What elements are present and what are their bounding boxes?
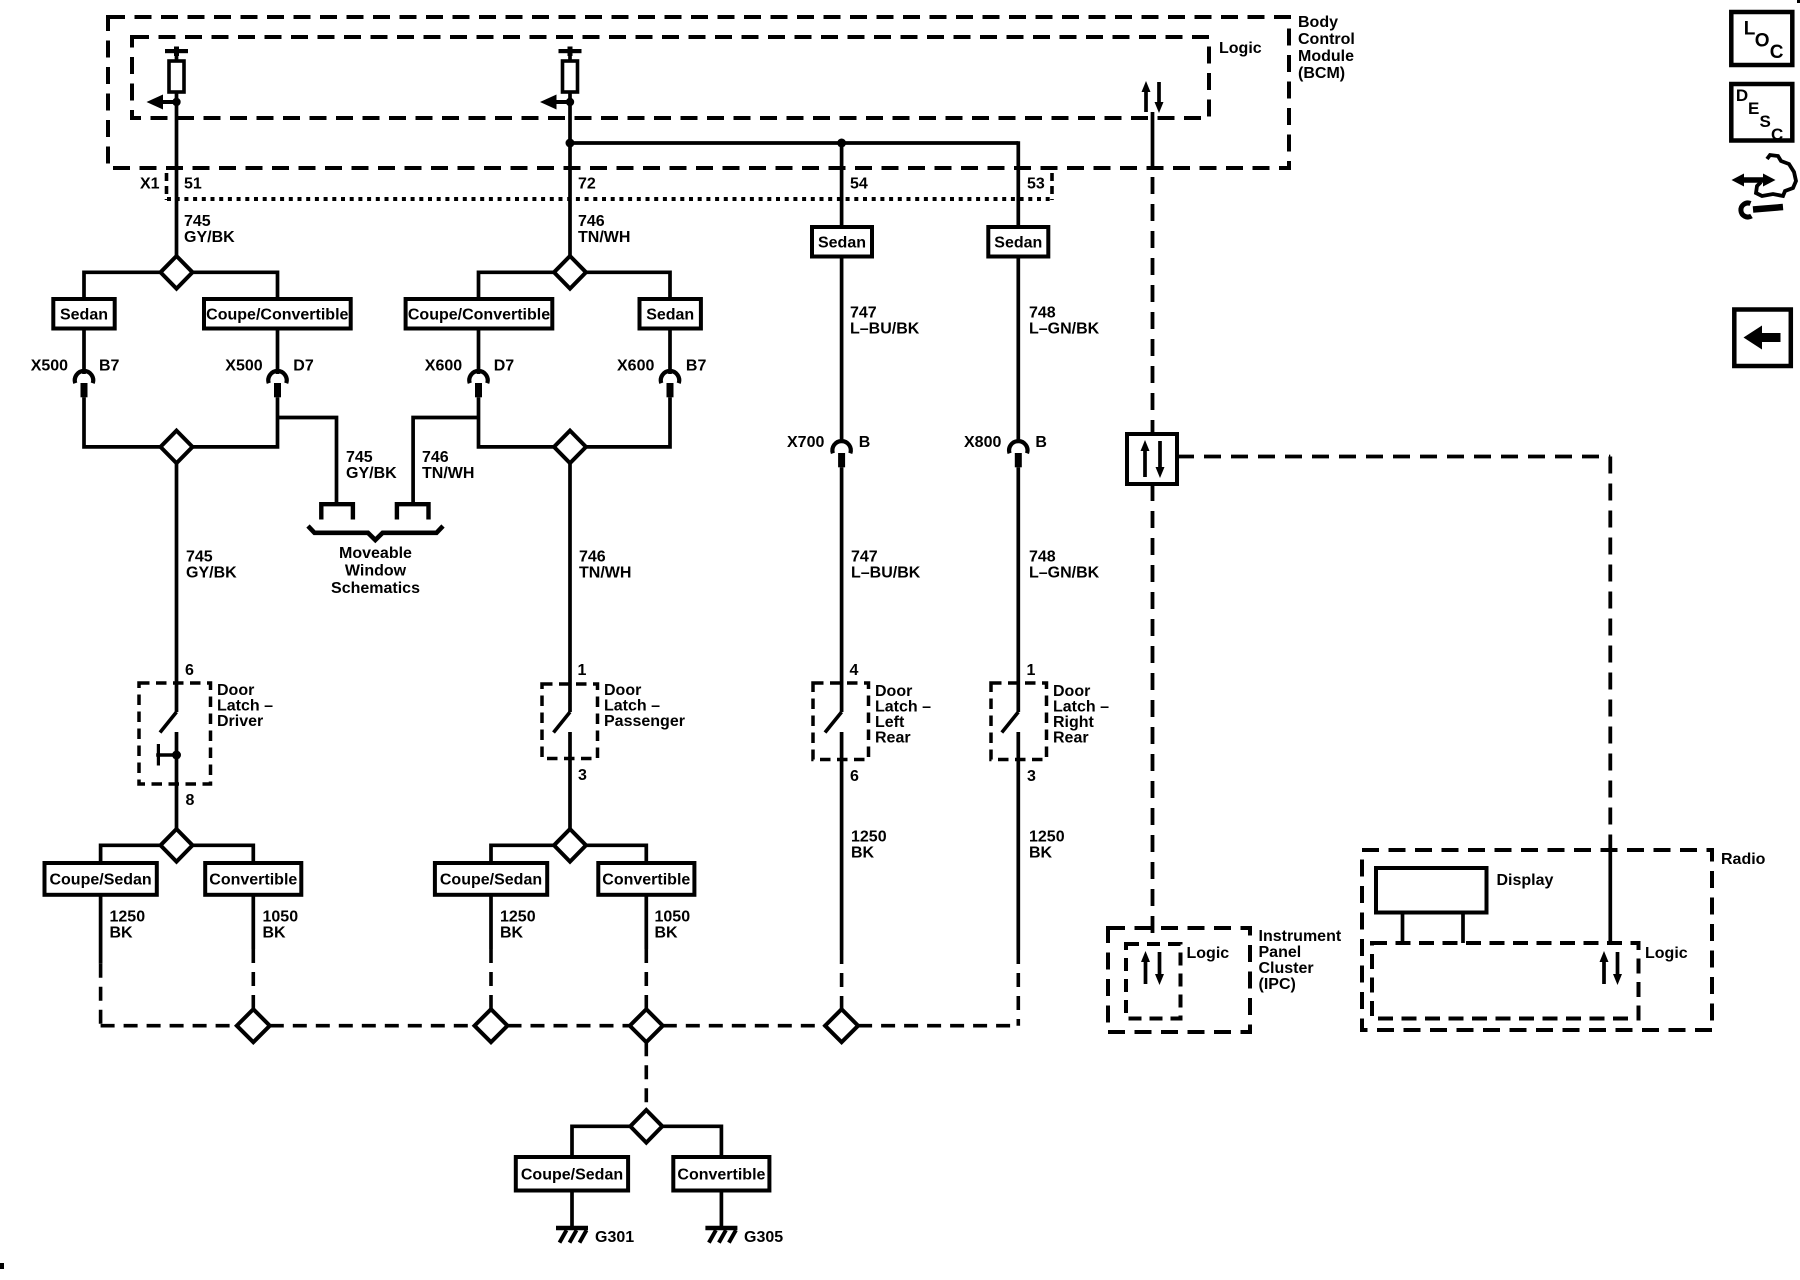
tap wire to moveable window socket (745) [278, 418, 337, 503]
svg-text:Latch –: Latch – [1053, 699, 1109, 716]
svg-text:BK: BK [500, 925, 524, 942]
svg-text:745: 745 [184, 213, 211, 230]
svg-text:Coupe/Convertible: Coupe/Convertible [408, 307, 550, 324]
junction dot at pin 54 wire [837, 139, 846, 148]
wire Coupe/Convertible box to X500 D7 [276, 329, 280, 375]
Door Latch Passenger dashed box [542, 684, 598, 759]
page corner mark (top right) [1797, 0, 1800, 3]
svg-text:Logic: Logic [1187, 945, 1230, 962]
svg-text:748: 748 [1029, 305, 1056, 322]
svg-text:X600: X600 [617, 358, 654, 375]
voltage feed symbol (passenger circuit) [559, 47, 582, 57]
horizontal wire to pins 54 and 53 [570, 141, 1018, 145]
svg-text:B7: B7 [686, 358, 707, 375]
wire 746 merge diamond to passenger door latch [568, 463, 572, 712]
wire below Convertible passenger (solid then dashed) [644, 895, 648, 1009]
svg-text:Coupe/Sedan: Coupe/Sedan [440, 872, 542, 889]
pin 53 separator tick [1050, 173, 1054, 200]
svg-text:Body: Body [1298, 14, 1338, 31]
Door Latch Left Rear dashed box [813, 683, 869, 760]
door latch driver switch arm [160, 712, 177, 733]
socket to moveable window schematics (745) [321, 504, 353, 519]
wire label 1050 BK (passenger convertible) [655, 909, 691, 942]
back arrow icon box [1734, 310, 1791, 367]
svg-text:Radio: Radio [1721, 851, 1766, 868]
Sedan box (driver sedan) [53, 299, 114, 329]
svg-text:4: 4 [850, 662, 859, 679]
Coupe/Convertible box (driver) [204, 299, 351, 329]
bus splice diamond (passenger convertible) [630, 1009, 663, 1042]
DESC icon box [1731, 84, 1792, 144]
signal arrow (left) passenger input [540, 95, 574, 110]
svg-text:747: 747 [851, 549, 878, 566]
serial data dashed line comm box to IPC [1151, 484, 1155, 944]
svg-text:1050: 1050 [263, 909, 299, 926]
svg-text:Door: Door [217, 682, 254, 699]
svg-text:BK: BK [263, 925, 287, 942]
door latch driver lower contact wire [175, 732, 179, 829]
svg-text:1250: 1250 [500, 909, 536, 926]
wire Sedan box to X600 B7 [668, 329, 672, 375]
svg-text:51: 51 [184, 176, 202, 193]
svg-text:Rear: Rear [875, 730, 911, 747]
svg-text:X1: X1 [140, 176, 160, 193]
svg-text:Convertible: Convertible [209, 872, 297, 889]
svg-text:Sedan: Sedan [994, 235, 1042, 252]
svg-text:Door: Door [1053, 683, 1090, 700]
svg-text:746: 746 [422, 449, 449, 466]
svg-text:Coupe/Sedan: Coupe/Sedan [49, 872, 151, 889]
connector X600 D7 arc and pin [469, 371, 487, 397]
resistor R (BCM passenger input pull-up) [563, 53, 578, 92]
wire label 748 L-GN/BK (mid) [1029, 549, 1100, 582]
svg-text:TN/WH: TN/WH [578, 229, 630, 246]
svg-text:L–BU/BK: L–BU/BK [850, 321, 920, 338]
svg-text:Sedan: Sedan [818, 235, 866, 252]
Door Latch Driver dashed box [139, 683, 211, 784]
svg-text:BK: BK [1029, 845, 1053, 862]
svg-text:Door: Door [604, 682, 641, 699]
svg-text:X500: X500 [225, 358, 262, 375]
svg-text:L–GN/BK: L–GN/BK [1029, 321, 1100, 338]
Display box [1376, 868, 1487, 913]
display leg wires [1403, 913, 1464, 944]
svg-text:746: 746 [578, 213, 605, 230]
svg-text:1250: 1250 [1029, 829, 1065, 846]
svg-text:Window: Window [345, 563, 407, 580]
Convertible box (G305) [673, 1157, 769, 1191]
wire label 1250 BK (driver coupe/sedan) [110, 909, 146, 942]
svg-text:X800: X800 [964, 434, 1001, 451]
svg-text:Driver: Driver [217, 713, 263, 730]
wire diamond to Convertible (driver) [193, 845, 254, 863]
svg-text:3: 3 [578, 767, 587, 784]
svg-text:D7: D7 [293, 358, 314, 375]
svg-text:X500: X500 [31, 358, 68, 375]
svg-text:G305: G305 [744, 1229, 783, 1246]
connector X1 separator tick [165, 173, 169, 200]
wire from Sedan box to X800 [1016, 257, 1020, 444]
svg-text:L–BU/BK: L–BU/BK [851, 565, 921, 582]
wire to ground G301 [570, 1191, 574, 1228]
Coupe/Sedan box (passenger ground) [435, 863, 547, 895]
svg-text:L–GN/BK: L–GN/BK [1029, 565, 1100, 582]
wire X700 to door latch left rear [840, 467, 844, 712]
svg-text:Rear: Rear [1053, 730, 1089, 747]
svg-text:Sedan: Sedan [60, 307, 108, 324]
wire label 1250 BK (passenger coupe/sedan) [500, 909, 536, 942]
svg-text:Right: Right [1053, 714, 1095, 731]
wire diamond to Convertible G305 [662, 1126, 721, 1157]
svg-text:BK: BK [110, 925, 134, 942]
wire below Coupe/Sedan driver (solid then dashed) [99, 895, 103, 1026]
door latch passenger lower contact wire [568, 732, 572, 829]
serial data dashed line BCM to comm box [1151, 177, 1155, 434]
Convertible box (passenger ground) [598, 863, 694, 895]
serial data wire inside BCM [1151, 112, 1155, 170]
svg-text:Display: Display [1497, 872, 1554, 889]
resistor R (BCM driver input pull-up) [169, 53, 184, 92]
svg-text:Instrument: Instrument [1259, 928, 1342, 945]
serial data arrows in comm box [1141, 440, 1165, 478]
wire Coupe/Convertible box to X600 D7 [477, 329, 481, 375]
serial data arrows in IPC logic [1141, 951, 1164, 985]
wire label 747 L-BU/BK (upper) [850, 305, 920, 338]
wire diamond to Sedan (X600 B7) branch [586, 272, 670, 299]
svg-text:B: B [859, 434, 871, 451]
splice diamond (passenger ground split) [554, 829, 586, 862]
svg-text:72: 72 [578, 176, 596, 193]
Coupe/Sedan box (G301) [516, 1157, 628, 1191]
svg-text:1250: 1250 [851, 829, 887, 846]
svg-text:745: 745 [346, 449, 373, 466]
svg-text:747: 747 [850, 305, 877, 322]
serial data arrows in BCM logic [1142, 81, 1164, 113]
svg-text:1: 1 [578, 662, 587, 679]
svg-text:Cluster: Cluster [1259, 960, 1314, 977]
connector face dotted line [167, 197, 1052, 201]
svg-text:S: S [1760, 112, 1771, 131]
Radio Logic inner dashed box [1372, 943, 1639, 1019]
connector X800 arc and pin [1009, 441, 1027, 467]
wire to ground G305 [720, 1191, 724, 1228]
ground symbol G301 [556, 1228, 588, 1243]
svg-text:Door: Door [875, 683, 912, 700]
Coupe/Sedan box (driver ground) [45, 863, 157, 895]
socket to moveable window schematics (746) [397, 504, 429, 519]
door latch left rear lower contact wire [840, 732, 844, 950]
door latch right rear lower contact wire [1016, 732, 1020, 950]
svg-text:1050: 1050 [655, 909, 691, 926]
svg-text:Logic: Logic [1219, 40, 1262, 57]
svg-text:D7: D7 [494, 358, 515, 375]
connector X700 arc and pin [832, 441, 850, 467]
svg-text:Convertible: Convertible [602, 872, 690, 889]
svg-text:X600: X600 [425, 358, 462, 375]
svg-text:BK: BK [655, 925, 679, 942]
wire X800 to door latch right rear [1016, 467, 1020, 712]
wire diamond to Coupe/Sedan G301 [572, 1126, 630, 1157]
svg-text:1: 1 [1027, 662, 1036, 679]
svg-text:Sedan: Sedan [646, 307, 694, 324]
Moveable Window Schematics label [331, 545, 420, 597]
wire diamond to Coupe/Convertible (X600 D7) branch [479, 272, 555, 299]
svg-text:G301: G301 [595, 1229, 634, 1246]
Door Latch Passenger label [604, 682, 685, 730]
wire X600 B7 to merge diamond 2 [586, 397, 670, 447]
serial data dashed branch to radio [1177, 457, 1610, 852]
connector X600 B7 arc and pin [661, 371, 679, 397]
svg-text:53: 53 [1027, 176, 1045, 193]
BCM label "Body Control Module (BCM)" [1298, 14, 1355, 82]
svg-text:748: 748 [1029, 549, 1056, 566]
wire Sedan box to X500 B7 [82, 329, 86, 375]
wire down to Sedan box (pin 53) [1016, 141, 1020, 227]
svg-text:Control: Control [1298, 31, 1355, 48]
IPC outer dashed box [1108, 928, 1250, 1032]
socket wire label 746 TN/WH [422, 449, 474, 482]
wire diamond to Sedan (B7) branch [84, 272, 161, 299]
wire below Convertible driver (solid then dashed) [251, 895, 255, 1009]
wire diamond to Coupe/Convertible (D7) branch [193, 272, 278, 299]
svg-text:Latch –: Latch – [875, 699, 931, 716]
BCM outer dashed box [108, 17, 1289, 168]
svg-text:Passenger: Passenger [604, 713, 685, 730]
connector X500 D7 arc and pin [268, 371, 286, 397]
svg-text:D: D [1736, 86, 1748, 105]
Sedan box (left rear circuit) [812, 227, 872, 257]
wire B7 to merge diamond [84, 397, 161, 447]
IPC Logic inner dashed box [1126, 944, 1181, 1019]
Door Latch Right Rear label [1053, 683, 1109, 747]
wire label 1250 BK (right rear) [1029, 829, 1065, 862]
wire down to Sedan box (pin 54) [840, 143, 844, 227]
wire X600 D7 to merge diamond 2 [479, 397, 555, 447]
bus splice diamond (driver convertible) [237, 1009, 270, 1042]
ground bus dashed line [101, 1024, 1019, 1028]
svg-text:Panel: Panel [1259, 944, 1302, 961]
splice diamond (ground merge) [630, 1110, 662, 1143]
svg-text:E: E [1748, 99, 1759, 118]
splice diamond (745 split) [161, 256, 193, 289]
svg-text:C: C [1771, 125, 1783, 144]
svg-text:GY/BK: GY/BK [186, 565, 237, 582]
door latch left rear switch arm [825, 712, 842, 733]
svg-text:TN/WH: TN/WH [579, 565, 631, 582]
svg-text:Convertible: Convertible [677, 1167, 765, 1184]
wire from resistor to arrow junction [175, 92, 179, 256]
bus splice diamond (passenger coupe/sedan) [475, 1009, 508, 1042]
Convertible box (driver ground) [205, 863, 301, 895]
svg-text:TN/WH: TN/WH [422, 465, 474, 482]
svg-text:6: 6 [850, 768, 859, 785]
splice diamond (745 merge) [161, 431, 193, 464]
tap wire to moveable window socket (746) [413, 418, 478, 503]
door latch right rear switch arm [1002, 712, 1019, 733]
serial data arrows in radio logic [1600, 951, 1623, 985]
wire below Coupe/Sedan passenger (solid then dashed) [489, 895, 493, 1009]
door latch driver pawl contact [156, 744, 181, 766]
svg-text:X700: X700 [787, 434, 824, 451]
wire from Sedan box to X700 [840, 257, 844, 444]
diagnostic tool icon (arrows and wrench) [1732, 155, 1797, 217]
Sedan box (right rear circuit) [988, 227, 1048, 257]
Door Latch Left Rear label [875, 683, 931, 747]
svg-text:Logic: Logic [1645, 945, 1688, 962]
wire label 745 GY/BK (mid) [186, 549, 237, 582]
Radio outer dashed box [1362, 850, 1712, 1030]
page corner mark [0, 1263, 4, 1269]
voltage feed symbol (driver circuit) [165, 47, 188, 57]
svg-text:Coupe/Sedan: Coupe/Sedan [521, 1167, 623, 1184]
svg-text:BK: BK [851, 845, 875, 862]
wire diamond to Coupe/Sedan (passenger) [491, 845, 554, 863]
svg-text:746: 746 [579, 549, 606, 566]
wire from resistor 2 down to pin 72 [568, 92, 572, 256]
signal arrow (left) driver input [147, 95, 181, 110]
svg-text:1250: 1250 [110, 909, 146, 926]
svg-text:GY/BK: GY/BK [346, 465, 397, 482]
wire label 1250 BK (left rear) [851, 829, 887, 862]
svg-text:8: 8 [186, 792, 195, 809]
svg-text:Moveable: Moveable [339, 545, 412, 562]
svg-text:745: 745 [186, 549, 213, 566]
wire diamond to Coupe/Sedan (driver) [101, 845, 161, 863]
Sedan box (passenger sedan) [640, 299, 701, 329]
wire below left rear latch (dashed lower part) [840, 950, 844, 1009]
wire label 746 TN/WH (mid) [579, 549, 631, 582]
door latch passenger switch arm [554, 712, 571, 733]
wire 745 merge diamond to driver door latch [175, 463, 179, 712]
bus splice diamond (left rear) [825, 1009, 858, 1042]
BCM Logic inner dashed box [132, 37, 1209, 118]
splice diamond (driver ground split) [161, 829, 193, 862]
serial data wire into radio logic [1608, 851, 1612, 943]
svg-text:B: B [1035, 434, 1047, 451]
svg-text:Schematics: Schematics [331, 580, 420, 597]
curly brace under sockets [308, 526, 443, 540]
svg-text:B7: B7 [99, 358, 120, 375]
serial data comm box [1127, 434, 1177, 484]
Door Latch Driver label [217, 682, 273, 730]
wire label 748 L-GN/BK (upper) [1029, 305, 1100, 338]
junction dot at wire 72 bus tap [566, 139, 575, 148]
wire below right rear latch (dashed lower part) [1016, 950, 1020, 1026]
svg-text:(BCM): (BCM) [1298, 65, 1345, 82]
wire label 1050 BK (driver convertible) [263, 909, 299, 942]
Coupe/Convertible box (passenger) [406, 299, 553, 329]
splice diamond (746 split) [554, 256, 586, 289]
svg-text:Coupe/Convertible: Coupe/Convertible [206, 307, 348, 324]
Door Latch Right Rear dashed box [991, 683, 1047, 760]
svg-text:(IPC): (IPC) [1259, 976, 1296, 993]
svg-text:Module: Module [1298, 48, 1354, 65]
connector X500 B7 arc and pin [75, 371, 93, 397]
svg-text:C: C [1770, 42, 1784, 63]
splice diamond (746 merge) [554, 431, 586, 464]
wire D7 to merge diamond [193, 397, 278, 447]
svg-text:GY/BK: GY/BK [184, 229, 235, 246]
Instrument Panel Cluster (IPC) label [1259, 928, 1342, 993]
svg-text:3: 3 [1027, 768, 1036, 785]
svg-text:Latch –: Latch – [217, 698, 273, 715]
wire label 746 TN/WH (top) [578, 213, 630, 246]
dashed wire to ground splice [644, 1042, 648, 1110]
wire label 745 GY/BK (top) [184, 213, 235, 246]
svg-text:54: 54 [850, 176, 868, 193]
wire diamond to Convertible (passenger) [586, 845, 646, 863]
LOC icon box [1731, 12, 1792, 65]
svg-text:Left: Left [875, 714, 905, 731]
svg-text:Latch –: Latch – [604, 698, 660, 715]
svg-text:O: O [1755, 31, 1770, 52]
wire label 747 L-BU/BK (mid) [851, 549, 921, 582]
socket wire label 745 GY/BK [346, 449, 397, 482]
svg-text:6: 6 [185, 662, 194, 679]
ground symbol G305 [705, 1228, 737, 1243]
